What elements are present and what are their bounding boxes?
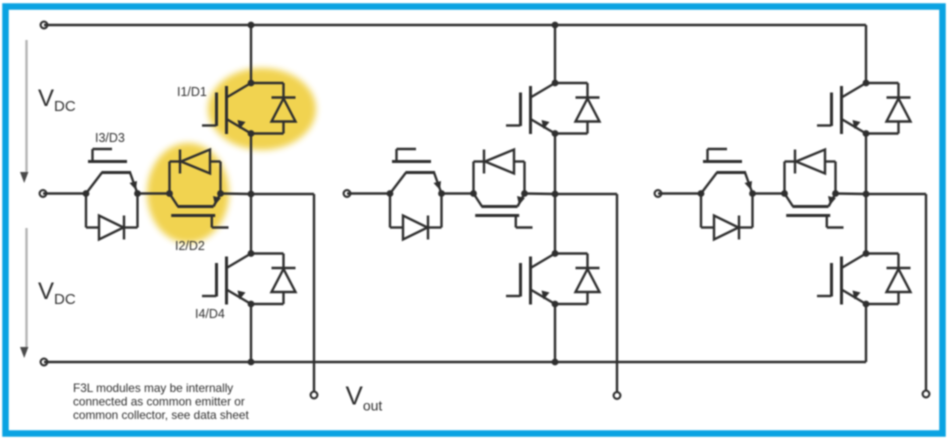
IGBT I3/D3 <box>83 149 141 240</box>
svg-text:I1/D1: I1/D1 <box>177 85 207 99</box>
svg-text:I4/D4: I4/D4 <box>195 307 225 321</box>
wire mid node to bottom IGBT phase 1 <box>250 194 252 254</box>
wire bidi switch to leg phase 1 <box>221 192 252 195</box>
IGBT I1/D1 <box>202 80 296 137</box>
wire bidi switch to leg phase 3 <box>836 192 867 195</box>
wire bottom emitter to rail phase 3 <box>865 304 867 362</box>
highlight ellipse on IGBT I2/D2 <box>147 143 229 243</box>
wire collector drop phase 3 <box>865 25 867 83</box>
DC+ terminal <box>41 22 48 29</box>
junction bottom rail phase 2 <box>552 359 559 366</box>
wire neutral terminal to switch phase 3 <box>658 192 701 194</box>
wire collector drop phase 2 <box>554 25 556 83</box>
output terminal phase 3 <box>923 391 930 398</box>
DC+ top rail wire <box>44 24 866 26</box>
wire collector drop phase 1 <box>250 25 252 83</box>
svg-text:I2/D2: I2/D2 <box>175 239 205 253</box>
output terminal phase 1 <box>311 392 318 399</box>
wire bidi switch to leg phase 2 <box>525 192 556 195</box>
IGBT I2/D2 <box>166 150 228 228</box>
wire mid node to bottom IGBT phase 3 <box>865 194 867 254</box>
IGBT bottom phase 3 <box>817 250 911 307</box>
bidi switch left IGBT phase 3 <box>698 149 756 240</box>
junction bottom rail phase 1 <box>248 359 255 366</box>
svg-text:connected as common emitter or: connected as common emitter or <box>73 395 245 409</box>
wire output phase 3 <box>866 193 926 195</box>
IGBT top phase 2 <box>506 80 600 137</box>
wire output phase 1 <box>251 193 314 195</box>
bidi switch right IGBT phase 3 <box>781 150 843 228</box>
wire top emitter to mid node phase 3 <box>865 134 867 195</box>
node mid phase 1 <box>248 191 255 198</box>
wire bottom emitter to rail phase 2 <box>554 304 556 362</box>
wire top emitter to mid node phase 2 <box>554 134 556 195</box>
wire neutral terminal to switch phase 1 <box>43 192 86 194</box>
Vdc bracket upper <box>20 40 28 183</box>
wire neutral terminal to switch phase 2 <box>347 192 390 194</box>
node mid phase 3 <box>863 191 870 198</box>
output terminal phase 2 <box>614 392 621 399</box>
wire output phase 2 <box>555 193 617 195</box>
wire between bidi IGBTs phase 1 <box>138 192 170 194</box>
wire between bidi IGBTs phase 2 <box>442 192 474 194</box>
DC- terminal <box>41 359 48 366</box>
junction top rail phase 1 <box>248 22 255 29</box>
IGBT top phase 3 <box>817 80 911 137</box>
junction top rail phase 2 <box>552 22 559 29</box>
bidi switch left IGBT phase 2 <box>387 149 445 240</box>
wire mid node to bottom IGBT phase 2 <box>554 194 556 254</box>
wire top emitter to mid node phase 1 <box>250 134 252 195</box>
wire bottom emitter to rail phase 1 <box>250 304 252 362</box>
svg-text:I3/D3: I3/D3 <box>95 131 125 145</box>
neutral terminal phase 2 <box>344 190 351 197</box>
Vdc bracket lower <box>20 228 28 358</box>
IGBT I4/D4 <box>202 250 296 307</box>
neutral terminal phase 3 <box>655 190 662 197</box>
wire between bidi IGBTs phase 3 <box>753 192 785 194</box>
neutral terminal phase 1 <box>40 190 47 197</box>
svg-text:F3L modules may be internally: F3L modules may be internally <box>73 381 233 395</box>
highlight ellipse on IGBT I1/D1 <box>208 68 316 150</box>
node mid phase 2 <box>552 191 559 198</box>
bidi switch right IGBT phase 2 <box>470 150 532 228</box>
IGBT bottom phase 2 <box>506 250 600 307</box>
svg-text:common collector, see data she: common collector, see data sheet <box>73 408 249 422</box>
DC- bottom rail wire <box>44 361 866 363</box>
